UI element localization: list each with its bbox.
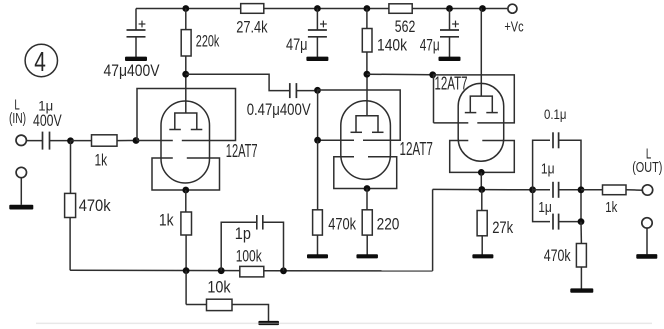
svg-text:220: 220 xyxy=(377,215,400,233)
capacitor C4 1u400V input coupling xyxy=(42,132,44,150)
svg-text:0.1μ: 0.1μ xyxy=(544,106,567,122)
V3 cathode box xyxy=(450,141,515,173)
node V1 grid xyxy=(133,137,140,144)
wire feedback riser xyxy=(432,189,434,271)
triode V3 12AT7 envelope xyxy=(458,83,504,161)
wire bottom feedback rail xyxy=(70,269,240,271)
V2 cathode junction xyxy=(364,185,371,192)
V1 cathode box xyxy=(152,158,220,190)
V1 plate xyxy=(175,113,197,129)
svg-text:140k: 140k xyxy=(377,36,408,54)
wire output ground xyxy=(646,228,648,254)
resistor R1 1k grid stopper xyxy=(71,140,92,142)
terminal output L xyxy=(642,185,652,195)
node V2 grid xyxy=(314,87,321,94)
wire V1 plate to C5 xyxy=(186,74,290,90)
svg-text:4: 4 xyxy=(34,46,46,77)
svg-text:1k: 1k xyxy=(605,199,617,216)
svg-text:562: 562 xyxy=(395,18,416,36)
triode V1 12AT7 envelope xyxy=(161,101,210,183)
svg-text:1μ: 1μ xyxy=(538,199,552,216)
wire V3 cathode down xyxy=(480,172,482,189)
svg-text:470k: 470k xyxy=(544,247,571,265)
svg-text:27k: 27k xyxy=(492,219,514,237)
node cathode-feedback junction xyxy=(183,267,190,274)
scan artifact line xyxy=(36,323,652,325)
svg-text:0.47μ400V: 0.47μ400V xyxy=(247,101,311,119)
resistor R6 470k input load xyxy=(70,141,72,194)
node 470k top xyxy=(578,218,585,225)
resistor R13 100k feedback xyxy=(240,266,264,277)
svg-text:220k: 220k xyxy=(196,33,220,51)
node 27k top xyxy=(478,186,485,193)
triode V2 12AT7 envelope xyxy=(341,101,391,180)
node V1 plate junction xyxy=(182,71,189,78)
capacitor C3 47u decoupling with ground xyxy=(446,5,453,12)
terminal +Vc supply xyxy=(508,4,517,13)
V1 cathode junction xyxy=(182,187,189,194)
wire V2 plate to V3 grid (direct coupled) xyxy=(367,73,433,76)
svg-text:12AT7: 12AT7 xyxy=(226,141,258,161)
resistor R10 470k output load xyxy=(580,222,582,244)
svg-text:(OUT): (OUT) xyxy=(632,159,662,176)
svg-text:100k: 100k xyxy=(236,248,263,266)
svg-text:+Vc: +Vc xyxy=(504,20,523,36)
terminal input L xyxy=(16,135,26,145)
capacitor C1 47u400V with ground xyxy=(135,9,137,30)
capacitor C2 47u decoupling with ground xyxy=(314,5,321,12)
capacitor C6 0.1u output xyxy=(533,140,550,190)
node input junction xyxy=(67,137,74,144)
node V3 grid xyxy=(429,71,436,78)
wire cathode bus xyxy=(433,188,533,190)
V2 plate lead xyxy=(366,74,368,116)
V3 grid box xyxy=(434,75,515,123)
node V2 grid-box lower corner xyxy=(314,137,321,144)
node 1p left xyxy=(218,267,225,274)
V3 plate lead xyxy=(480,9,482,97)
V1 grid box xyxy=(137,89,236,141)
resistor R8 220 V2 cathode xyxy=(366,189,368,210)
resistor R12 1k V1 cathode xyxy=(185,190,187,212)
label circuit number 4 xyxy=(25,44,57,76)
svg-text:47μ: 47μ xyxy=(286,36,308,54)
terminal output ground xyxy=(642,218,652,228)
node 1p right xyxy=(280,267,287,274)
svg-text:400V: 400V xyxy=(33,112,62,130)
node output network right xyxy=(578,186,585,193)
svg-text:1k: 1k xyxy=(95,151,108,169)
svg-text:12AT7: 12AT7 xyxy=(435,73,468,93)
V2 plate xyxy=(356,116,378,132)
resistor R4 140k (V2 plate load) xyxy=(364,5,371,12)
resistor R11 1k output xyxy=(581,189,603,191)
V3 plate xyxy=(470,96,492,112)
V3 cathode junction xyxy=(478,169,485,176)
V2 cathode box xyxy=(334,157,397,189)
node rail junction above 220k xyxy=(182,5,189,12)
svg-text:1μ: 1μ xyxy=(541,161,555,178)
capacitor C5 0.47u400V coupling xyxy=(289,83,291,98)
capacitor C7 1u output xyxy=(533,189,550,191)
terminal input ground xyxy=(16,167,26,177)
node output network left xyxy=(529,186,536,193)
node V2 plate junction xyxy=(364,71,371,78)
node rail junction to V3 plate xyxy=(479,5,486,12)
svg-text:10k: 10k xyxy=(207,279,231,297)
svg-text:47μ400V: 47μ400V xyxy=(104,62,160,80)
capacitor C8 1u output xyxy=(533,190,550,222)
resistor R3 27.4k (supply dropper) xyxy=(241,4,264,14)
svg-text:1p: 1p xyxy=(235,225,251,243)
wire terminal to ground xyxy=(20,178,22,205)
svg-text:(IN): (IN) xyxy=(9,110,26,127)
wire input to C4 xyxy=(26,140,42,142)
svg-text:27.4k: 27.4k xyxy=(236,18,268,36)
svg-text:12AT7: 12AT7 xyxy=(400,139,433,159)
svg-text:470k: 470k xyxy=(79,197,112,215)
resistor R2 220k (V1 plate load) xyxy=(185,9,187,30)
resistor R7 470k V2 grid leak xyxy=(317,140,319,210)
resistor R5 562 (supply dropper) xyxy=(389,4,412,14)
resistor R14 10k to ground xyxy=(185,271,187,305)
svg-text:1k: 1k xyxy=(159,212,174,230)
resistor R9 27k V3 cathode xyxy=(481,190,483,211)
ground input xyxy=(9,205,33,210)
capacitor C9 1p feedback xyxy=(221,222,257,270)
wire top supply rail xyxy=(136,8,241,10)
wire C4 to node xyxy=(50,140,71,142)
svg-text:470k: 470k xyxy=(328,215,356,233)
V1 plate lead xyxy=(185,74,187,113)
V2 grid box xyxy=(318,90,401,140)
svg-text:47μ: 47μ xyxy=(420,37,440,55)
